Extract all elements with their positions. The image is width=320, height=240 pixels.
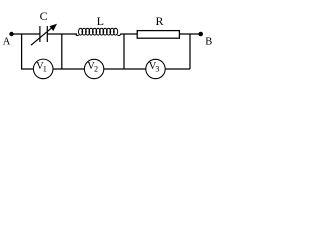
svg-text:V2: V2 [87,61,98,73]
svg-text:C: C [40,9,48,23]
svg-text:L: L [97,14,104,28]
wire A to capacitor [12,33,40,35]
svg-text:B: B [205,37,212,48]
wire vertical drop between L and R [123,34,125,69]
voltmeter V3 [146,59,165,78]
node A [9,32,13,36]
wire V1 to V2 [53,68,84,70]
capacitor C [40,26,47,42]
node B [198,32,203,37]
resistor R [137,31,179,39]
voltmeter V2 [84,59,103,78]
wire vertical drop left of C [21,34,23,69]
inductor L [76,28,121,35]
svg-text:V3: V3 [149,61,160,73]
wire bottom to V1 [21,68,33,70]
svg-text:V1: V1 [36,61,47,73]
wire capacitor to inductor [47,33,77,35]
wire inductor to resistor [120,33,137,35]
svg-text:R: R [155,14,163,28]
wire V3 to right drop [165,68,190,70]
wire resistor to B [180,33,201,35]
svg-text:A: A [3,37,11,48]
voltmeter V1 [33,59,53,79]
wire V2 to V3 [104,68,146,70]
variable-capacitor arrow [31,24,57,45]
wire vertical drop between C and L [61,34,63,69]
wire vertical drop right of R [189,34,191,69]
